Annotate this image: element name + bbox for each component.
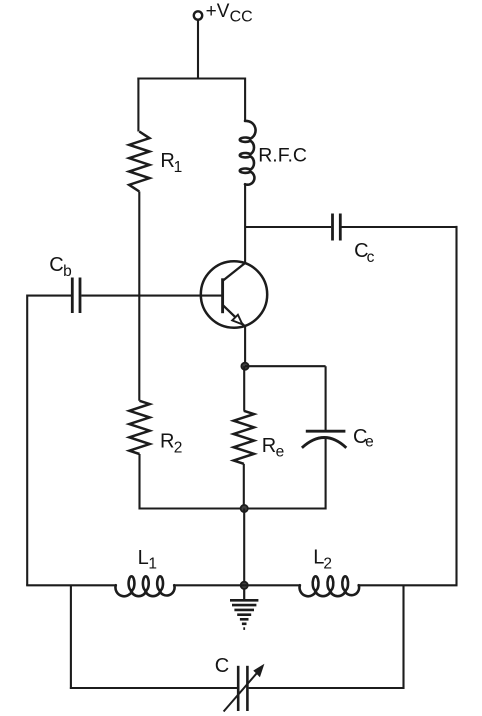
wire rail to R1 <box>137 78 139 132</box>
capacitor Ce bottom plate <box>302 438 346 448</box>
capacitor C arrow <box>224 671 259 711</box>
inductor RFC <box>240 121 256 185</box>
svg-text:c: c <box>367 249 375 266</box>
wire base <box>81 295 222 297</box>
capacitor C variable <box>237 666 240 711</box>
transistor base bar <box>221 278 224 313</box>
inductor L1 <box>115 576 174 596</box>
svg-text:e: e <box>365 433 374 450</box>
wire R1 to R2 <box>138 192 140 401</box>
svg-text:e: e <box>276 444 285 461</box>
wire node to L2 <box>244 584 300 586</box>
transistor emitter lead <box>223 306 245 327</box>
wire VCC down <box>197 20 199 79</box>
wire bottom loop right <box>249 687 405 689</box>
VCC terminal <box>194 11 202 19</box>
wire L2 to right edge <box>358 584 457 586</box>
wire tank rail left <box>26 584 116 586</box>
svg-text:2: 2 <box>174 439 183 456</box>
capacitor Ce top plate <box>306 430 346 433</box>
node tank junction <box>241 582 248 589</box>
resistor R1 <box>129 132 149 192</box>
wire emitter down <box>244 326 246 366</box>
svg-text:1: 1 <box>174 159 183 176</box>
wire left inner drop <box>70 585 72 689</box>
transistor collector lead <box>223 262 247 281</box>
svg-text:R.F.C: R.F.C <box>258 145 307 167</box>
wire bottom loop left <box>70 687 237 689</box>
wire L1 to node <box>174 584 244 586</box>
svg-text:+V: +V <box>206 1 230 22</box>
wire junction to Ce top <box>245 365 326 367</box>
wire right edge down <box>455 226 457 586</box>
ground <box>243 588 245 600</box>
svg-text:C: C <box>49 254 63 276</box>
svg-text:C: C <box>215 655 229 677</box>
transistor emitter arrow <box>232 315 242 325</box>
svg-text:R: R <box>160 430 174 452</box>
wire bottom rail <box>140 507 326 509</box>
wire Re to bottom rail <box>243 464 245 510</box>
wire right inner drop <box>402 585 404 689</box>
wire junction to Re <box>243 366 245 411</box>
resistor R2 <box>129 401 149 454</box>
wire left edge down <box>26 295 28 586</box>
node emitter junction <box>241 363 248 370</box>
wire down to tank <box>243 509 245 586</box>
wire RFC to collector <box>244 184 246 264</box>
wire top rail <box>137 77 245 79</box>
svg-text:L: L <box>138 547 149 569</box>
svg-text:1: 1 <box>148 556 157 573</box>
svg-text:2: 2 <box>323 555 332 572</box>
capacitor Cb <box>71 278 74 314</box>
svg-text:b: b <box>63 263 72 280</box>
wire Cc to right edge <box>342 226 457 228</box>
svg-text:CC: CC <box>230 9 253 26</box>
wire Cb to left edge <box>27 295 71 297</box>
wire Ce to bottom rail <box>325 439 327 510</box>
svg-text:R: R <box>262 435 276 457</box>
node bottom rail junction <box>241 505 248 512</box>
wire R2 to bottom rail <box>138 454 140 510</box>
wire rail to RFC <box>244 78 246 122</box>
wire collector tap to Cc <box>245 226 331 228</box>
resistor Re <box>234 411 254 464</box>
transistor Q1 body <box>201 261 267 327</box>
inductor L2 <box>300 576 360 596</box>
capacitor Cc <box>331 214 334 241</box>
